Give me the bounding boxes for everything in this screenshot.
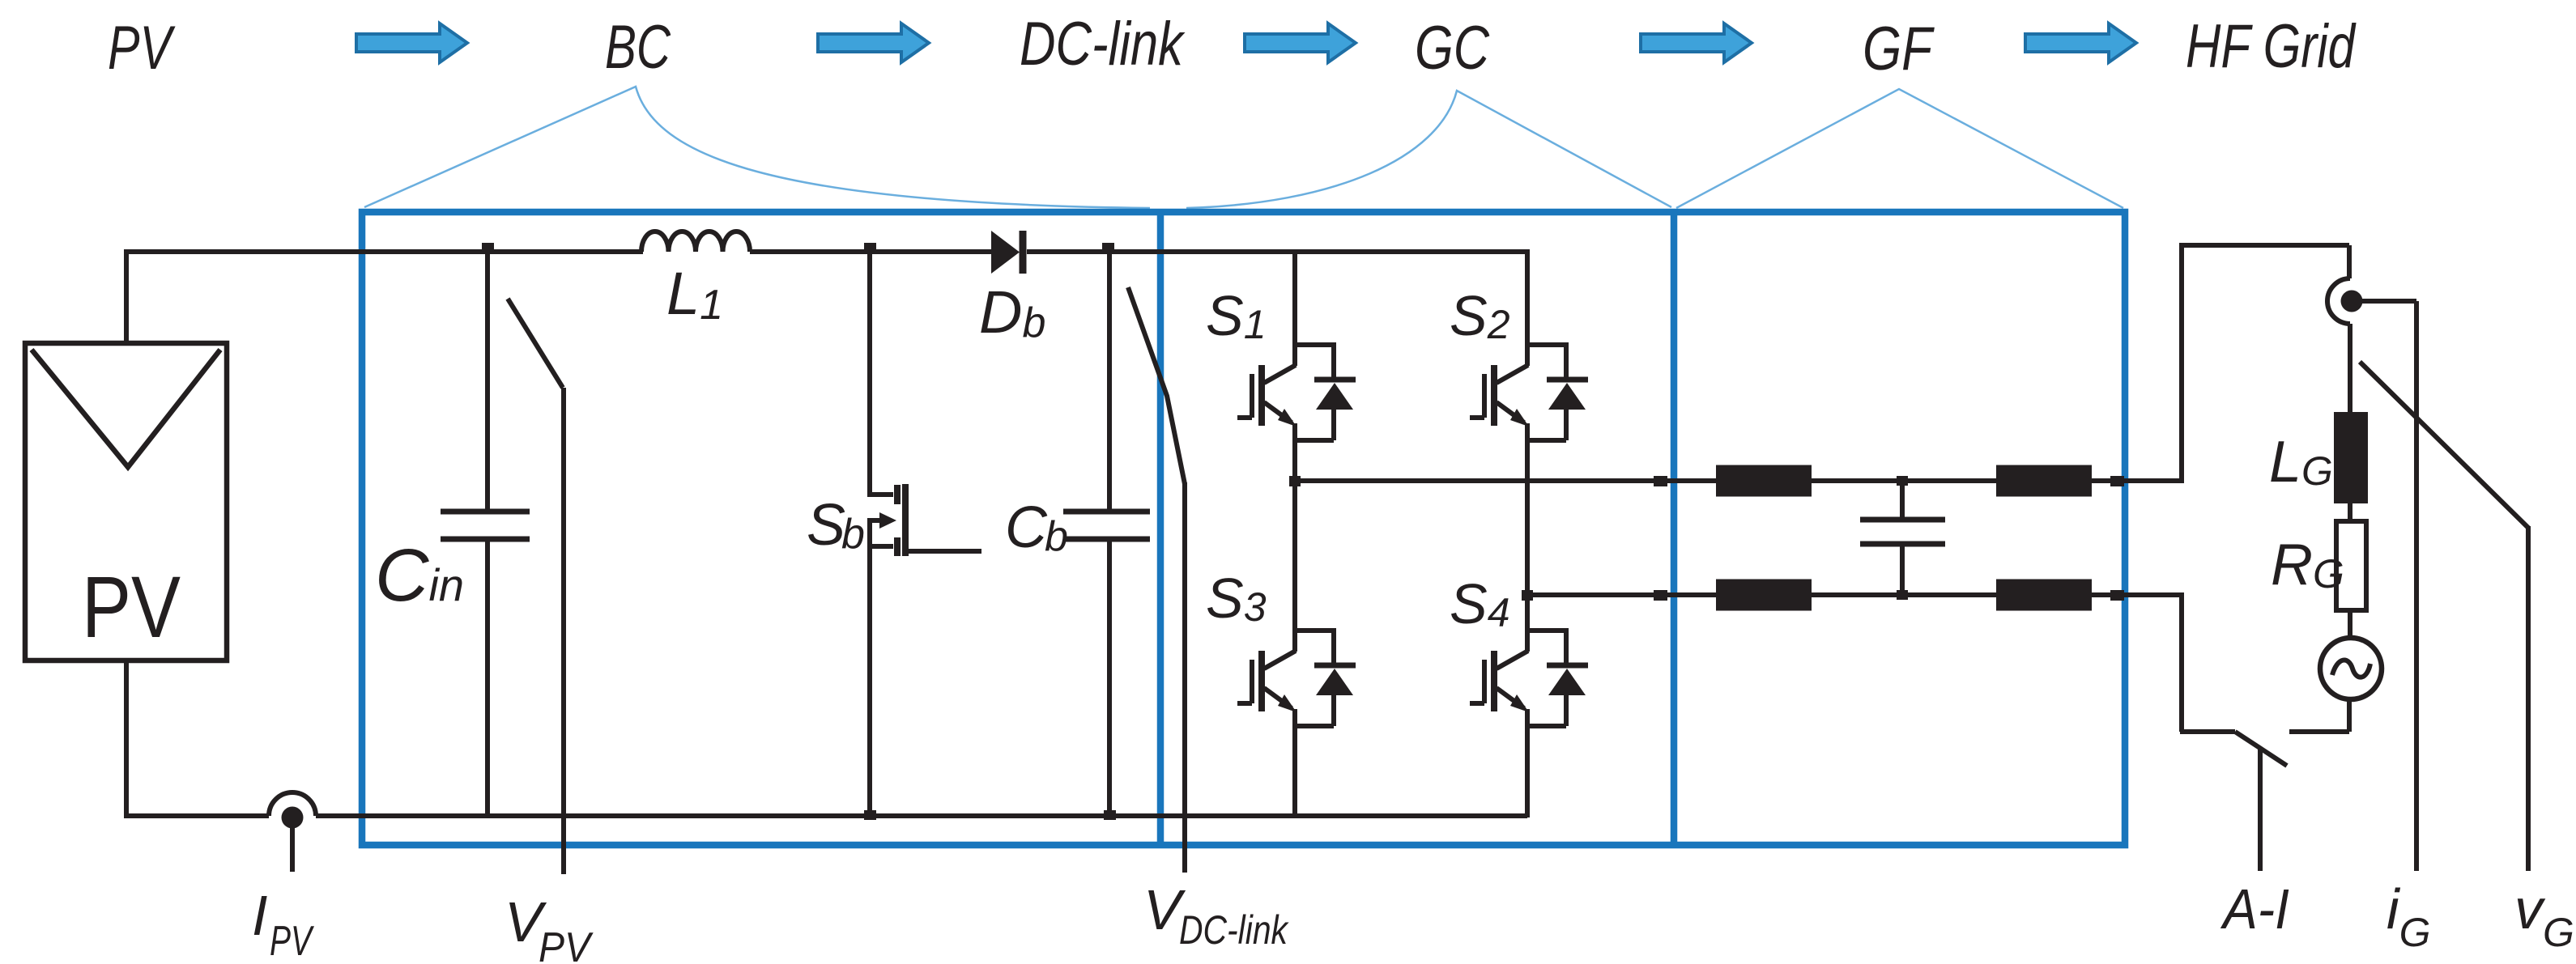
wire v_G probe lead [2526,526,2531,871]
wire grid loop left riser lower [2179,592,2184,732]
wire V_DC-link probe lead [1182,482,1187,873]
flow arrow 1 [356,23,467,62]
section divider BC/GC [1157,212,1165,845]
svg-text:Db: Db [979,278,1045,346]
wire grid loop left riser upper [2179,245,2184,483]
node Cb bottom junction [1104,810,1116,820]
inductor filter bottom-right [1996,580,2092,611]
flow arrow 3 [1245,23,1356,62]
svg-text:DC-link: DC-link [1179,907,1289,953]
svg-text:b: b [841,511,865,558]
svg-text:DC-link: DC-link [1020,10,1186,79]
wire bottom rail I_PV to S4 leg [316,813,1527,818]
svg-text:S: S [807,493,845,558]
capacitor Cin [441,252,530,816]
wire A-I switch right lead [2289,729,2349,734]
wire bridge output A [1292,478,2182,483]
transistor S1 (IGBT) [1237,342,1356,440]
svg-text:L1: L1 [666,260,723,329]
svg-text:S1: S1 [1206,284,1267,347]
svg-text:PV: PV [108,14,176,83]
svg-text:GF: GF [1863,15,1935,83]
wire S2/S4 leg lower [1525,725,1530,817]
svg-text:S4: S4 [1450,572,1510,635]
svg-text:C: C [1005,495,1048,560]
svg-text:iG: iG [2387,877,2430,955]
node Sb top junction [864,243,876,253]
svg-text:Cin: Cin [375,534,464,617]
wire A-I switch left lead [2180,729,2235,734]
node Cin top junction [482,243,494,253]
svg-text:GC: GC [1415,14,1490,83]
wire S2/S4 leg middle [1525,440,1530,629]
node filter cap bottom junction [1897,590,1908,600]
node filter cap top junction [1897,476,1908,486]
transistor Sb (MOSFET) [870,252,981,816]
node output B box-exit tick [2110,590,2124,601]
BRACES [364,87,2123,208]
transistor S2 (IGBT) [1470,342,1588,440]
wire A-I probe lead [2258,748,2263,871]
svg-text:PV: PV [82,558,181,656]
svg-text:A-I: A-I [2220,877,2289,941]
flow arrow 2 [818,23,929,62]
node output B box-entry tick [1654,590,1667,601]
brace pointer for GC section [1186,91,1671,208]
svg-text:b: b [1045,513,1068,560]
wire bottom rail PV to I_PV connector [124,660,269,816]
resistor RG [2336,521,2366,610]
node Cb top junction [1102,243,1114,253]
wire bridge output B [1527,592,2182,597]
section box BC + DC-link (outer frame) [362,212,2125,845]
inductor L1 [641,231,750,252]
wire top rail Db to S2 leg [1027,249,1527,254]
flow arrow 4 [1641,23,1752,62]
svg-text:RG: RG [2271,533,2344,597]
BOXES [362,212,2125,845]
node output A box-exit tick [2110,476,2124,486]
switch A-I blade [2235,732,2287,766]
svg-text:PV: PV [539,924,594,964]
brace pointer for GF section [1676,89,2123,208]
inductor filter top-right [1996,465,2092,497]
FLOW ROW [108,10,2357,83]
svg-text:S2: S2 [1450,284,1510,347]
node bridge output A junction [1289,476,1301,486]
source AC grid vG [2320,638,2382,699]
node bridge output B junction [1522,590,1533,601]
svg-text:PV: PV [270,918,314,964]
wire V_PV probe lead [561,388,566,874]
inductor filter top-left [1716,465,1812,497]
svg-text:I: I [252,884,267,947]
svg-text:HF Grid: HF Grid [2186,12,2357,81]
wire PV top lead [124,252,129,345]
inductor LG [2334,412,2368,503]
section divider GC/GF [1671,212,1678,845]
switch probe V_PV blade [508,299,563,388]
wire S2/S4 leg upper [1525,249,1530,343]
connector I_PV measurement point [269,792,316,872]
switch probe v_G blade [2360,362,2528,528]
node Sb bottom junction [864,810,876,820]
brace pointer for BC section [364,87,1150,208]
wire LG to RG [2348,503,2352,522]
capacitor filter Cf [1860,481,1945,595]
transistor S3 (IGBT) [1237,628,1356,726]
PV module PV1 [25,343,227,660]
svg-text:LG: LG [2269,430,2333,495]
diode Db [991,231,1023,274]
wire grid loop top [2179,243,2349,248]
wire source bottom lead [2347,699,2352,732]
wire top rail L1 to Db [750,249,991,254]
node output A box-entry tick [1654,476,1667,486]
connector grid measurement point [2327,245,2363,412]
svg-text:BC: BC [605,13,671,82]
svg-text:vG: vG [2514,877,2574,955]
inductor filter bottom-left [1716,580,1812,611]
svg-text:S3: S3 [1206,567,1267,630]
wire RG to source [2348,610,2352,639]
switch probe V_DC-link blade [1128,287,1185,484]
capacitor Cb [1063,252,1150,816]
wire top rail PV to L1 [124,249,643,254]
wire S1/S3 leg middle [1292,440,1297,629]
transistor S4 (IGBT) [1470,628,1588,726]
wire S1/S3 leg lower [1292,725,1297,816]
wire S1/S3 leg upper [1292,252,1297,343]
wire i_G tap [2358,301,2416,871]
flow arrow 5 [2025,23,2136,62]
